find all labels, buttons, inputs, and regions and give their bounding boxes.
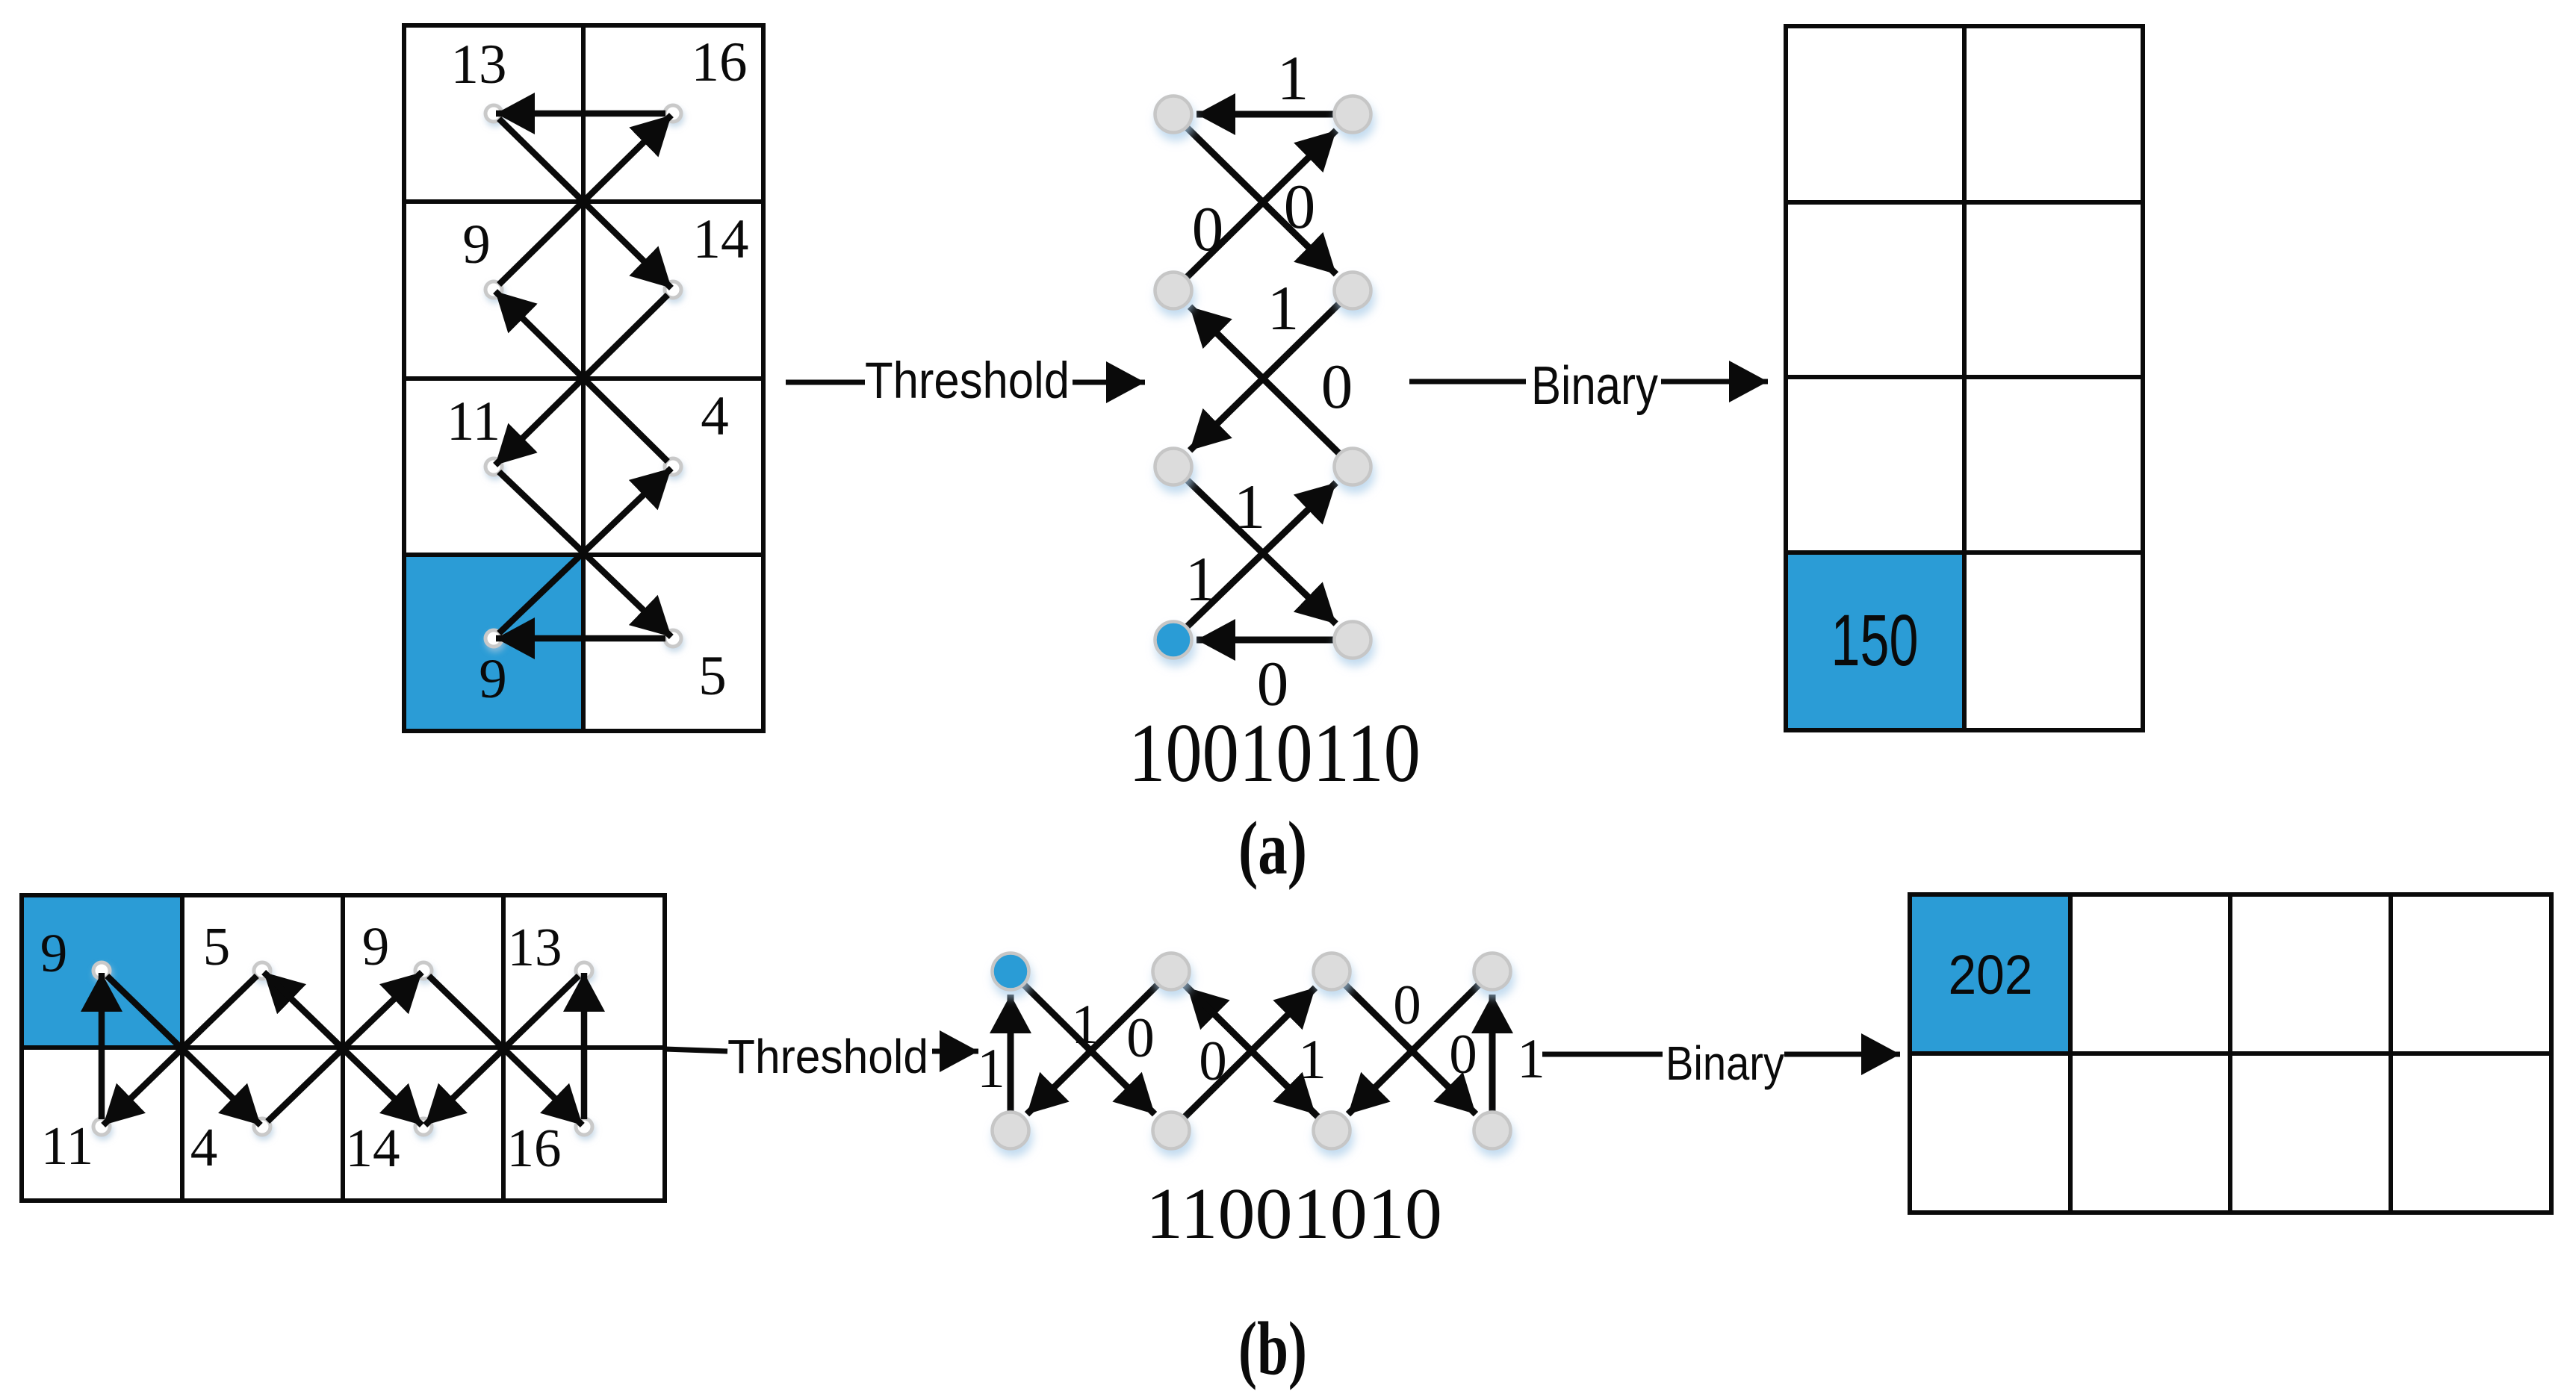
svg-text:1: 1 [1071, 994, 1099, 1056]
svg-text:Threshold: Threshold [865, 352, 1070, 409]
svg-text:1: 1 [1517, 1028, 1545, 1090]
svg-text:202: 202 [1949, 944, 2033, 1006]
svg-text:1: 1 [977, 1038, 1005, 1100]
svg-text:5: 5 [698, 645, 727, 707]
svg-text:1: 1 [1298, 1029, 1326, 1091]
svg-text:11: 11 [41, 1115, 93, 1176]
svg-text:13: 13 [451, 34, 507, 96]
svg-text:13: 13 [508, 917, 562, 977]
svg-text:0: 0 [1321, 352, 1353, 422]
svg-text:0: 0 [1393, 974, 1421, 1036]
svg-text:9: 9 [40, 923, 68, 983]
svg-text:(b): (b) [1238, 1307, 1307, 1391]
svg-text:9: 9 [362, 916, 390, 977]
svg-text:9: 9 [479, 648, 507, 710]
svg-text:14: 14 [693, 208, 749, 270]
svg-text:14: 14 [346, 1118, 400, 1178]
svg-text:11: 11 [447, 390, 500, 452]
svg-text:0: 0 [1192, 194, 1224, 264]
svg-text:1: 1 [1185, 544, 1217, 614]
svg-text:1: 1 [1234, 472, 1266, 542]
svg-text:(a): (a) [1238, 806, 1307, 891]
svg-text:Threshold: Threshold [727, 1030, 928, 1083]
svg-text:0: 0 [1449, 1024, 1477, 1086]
svg-text:0: 0 [1199, 1030, 1227, 1092]
svg-text:11001010: 11001010 [1146, 1174, 1442, 1254]
svg-text:16: 16 [692, 31, 748, 93]
svg-text:10010110: 10010110 [1129, 707, 1421, 800]
svg-text:150: 150 [1831, 600, 1919, 681]
svg-text:5: 5 [203, 916, 231, 977]
svg-text:4: 4 [701, 385, 729, 447]
svg-text:9: 9 [462, 214, 491, 276]
svg-text:0: 0 [1126, 1007, 1155, 1069]
svg-text:Binary: Binary [1531, 356, 1658, 416]
svg-text:Binary: Binary [1666, 1036, 1784, 1090]
svg-text:0: 0 [1284, 172, 1316, 242]
svg-text:4: 4 [190, 1117, 218, 1177]
svg-text:1: 1 [1267, 273, 1300, 343]
svg-text:16: 16 [507, 1118, 562, 1178]
svg-text:1: 1 [1277, 43, 1309, 113]
